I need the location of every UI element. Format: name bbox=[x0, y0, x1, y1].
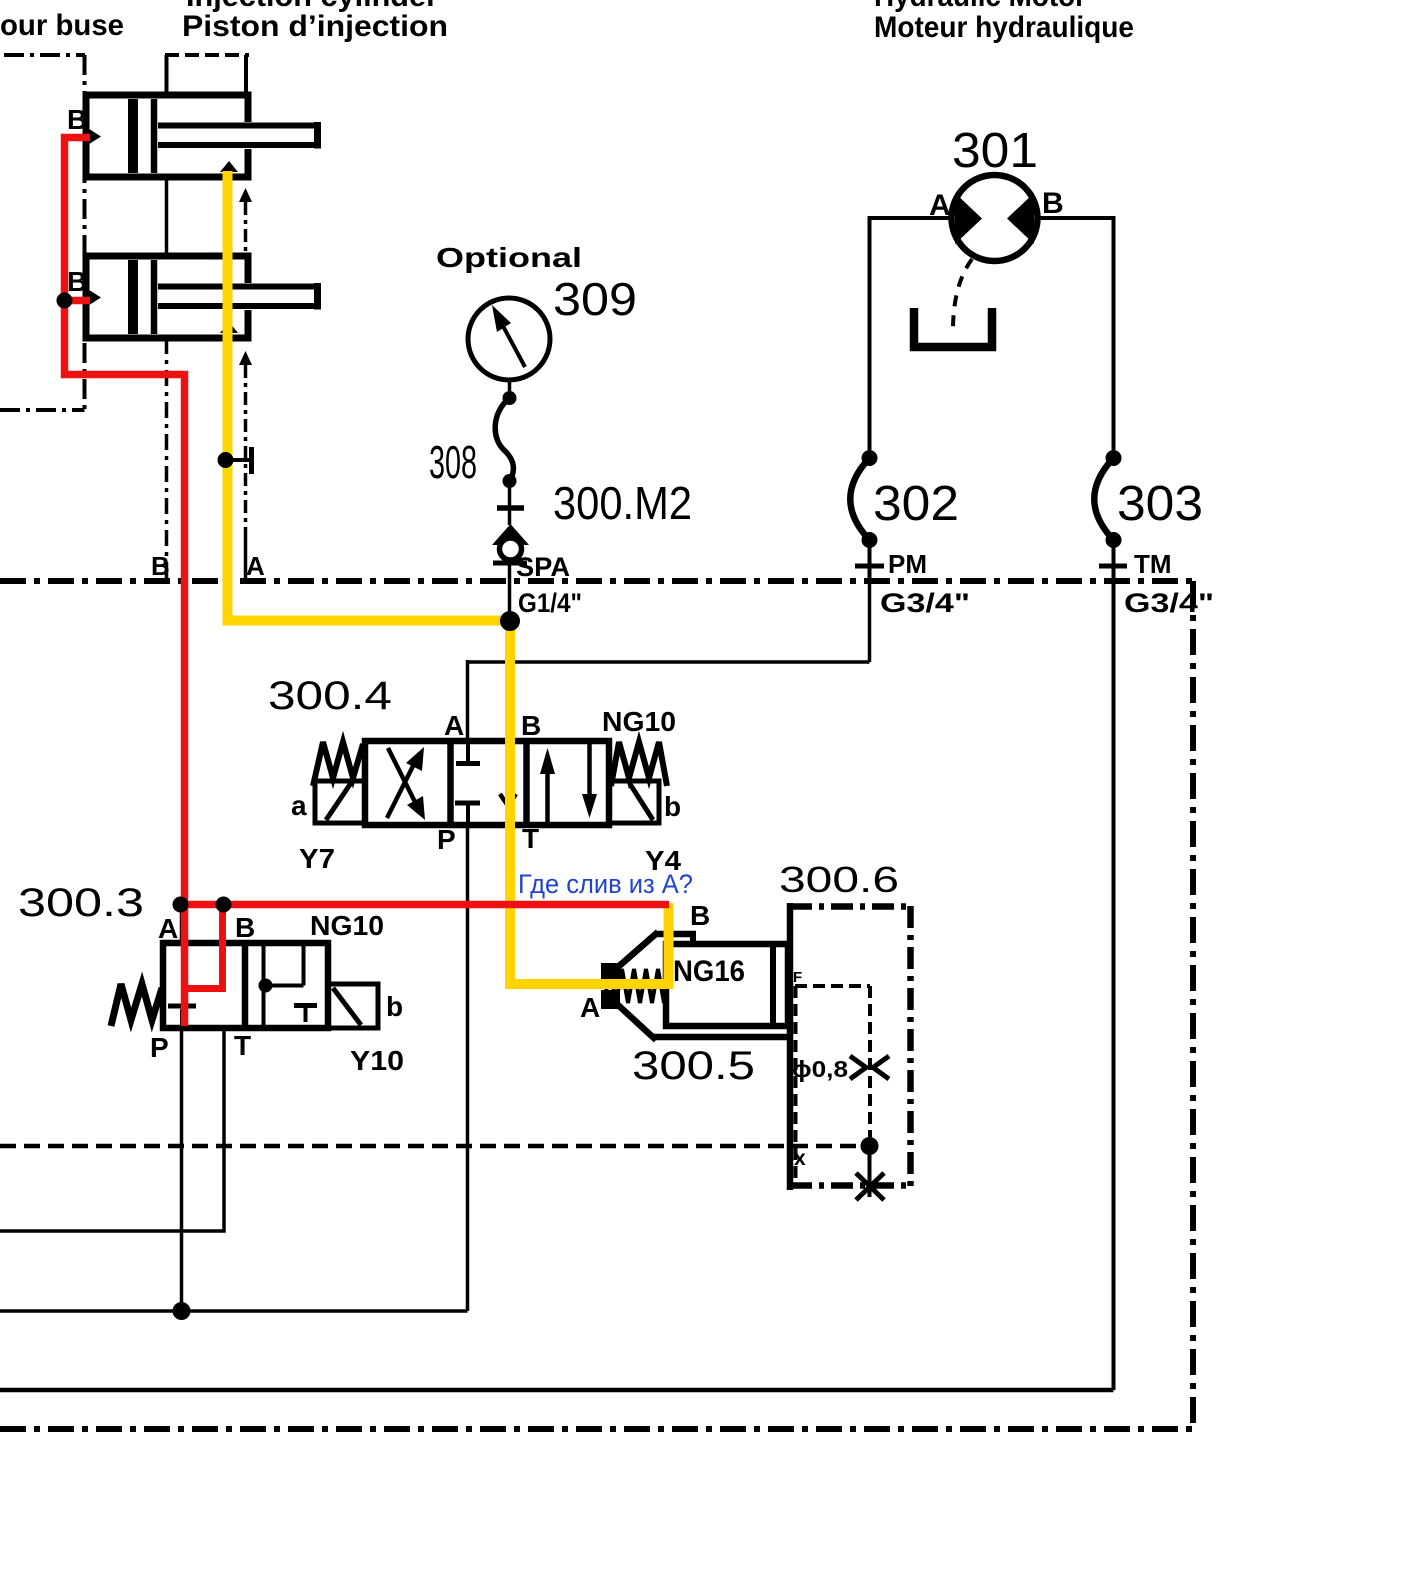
junction dot SPA bbox=[500, 611, 520, 631]
cylinder 1 rod bbox=[158, 122, 321, 149]
svg-text:302: 302 bbox=[873, 477, 959, 531]
svg-text:Moteur hydraulique: Moteur hydraulique bbox=[874, 11, 1134, 44]
300.4 left spring bbox=[313, 742, 363, 786]
300.3 left position P blocked symbol bbox=[168, 1004, 196, 1009]
300.5 funnel top diagonal bbox=[618, 932, 658, 967]
cylinder 1 piston bar 1 bbox=[128, 99, 138, 173]
drain line B below cylinder 2 bbox=[165, 338, 169, 578]
svg-text:F: F bbox=[793, 969, 802, 986]
svg-text:Y10: Y10 bbox=[350, 1045, 404, 1076]
300.4 center A blocked symbol bbox=[466, 744, 470, 761]
leak line A between cylinders bbox=[244, 202, 248, 256]
300.5 body NG16 bbox=[666, 944, 788, 1026]
300.4 right spring bbox=[611, 742, 667, 786]
svg-text:300.4: 300.4 bbox=[268, 674, 392, 718]
red highlight line (B side) bbox=[65, 138, 185, 1027]
svg-text:G3/4": G3/4" bbox=[1124, 588, 1214, 618]
red line to 300.5 bbox=[181, 901, 669, 909]
svg-text:303: 303 bbox=[1117, 477, 1203, 531]
300.5 seat lower block bbox=[601, 990, 620, 1009]
tank symbol bbox=[914, 308, 992, 347]
300.6 plug line bbox=[868, 1153, 872, 1197]
boundary dash-dot top edge bbox=[0, 578, 1193, 584]
svg-text:G1/4": G1/4" bbox=[518, 588, 582, 618]
300.6 left solid edge bbox=[787, 903, 794, 1190]
coupling 303 upper dot bbox=[1106, 450, 1122, 466]
PM line above boundary bbox=[868, 547, 872, 578]
svg-text:TM: TM bbox=[1134, 549, 1172, 579]
pump supply line bbox=[0, 1309, 468, 1313]
hose top junction dot bbox=[503, 391, 517, 405]
svg-text:NG10: NG10 bbox=[310, 910, 384, 941]
PM line below boundary bbox=[868, 584, 872, 662]
leak line A below cylinder 2 bbox=[244, 365, 248, 532]
300.4 center P blocked symbol bbox=[455, 801, 480, 806]
red U path inside valve 300.3 bbox=[185, 905, 223, 989]
valve 300.4 port B line bbox=[508, 621, 512, 744]
TM line below boundary to bottom bbox=[1112, 584, 1116, 1390]
cylinder 1 mount box right wall bbox=[244, 55, 248, 96]
boundary dash-dot right edge bbox=[1190, 581, 1196, 1429]
300.5 funnel bottom diagonal bbox=[618, 1005, 656, 1040]
valve 300.4 divider 1 bbox=[447, 741, 454, 825]
svg-text:our buse: our buse bbox=[0, 9, 124, 42]
cylinder 1 mount box left wall bbox=[165, 55, 169, 96]
300.4 right position up arrow bbox=[545, 770, 550, 822]
svg-text:SPA: SPA bbox=[516, 552, 570, 582]
svg-text:T: T bbox=[522, 823, 539, 854]
svg-text:Optional: Optional bbox=[436, 242, 582, 273]
flexible hose 308 bbox=[495, 398, 513, 481]
svg-text:308: 308 bbox=[429, 436, 477, 488]
300.5 funnel bottom line bbox=[653, 1034, 789, 1041]
valve 300.3 port B stub bbox=[221, 904, 225, 946]
shutoff tick 300.M2 bbox=[497, 505, 524, 511]
plugged branch stub bbox=[226, 458, 252, 462]
minimess arrow 300.M2 bbox=[492, 524, 529, 545]
junction dot 300.3 B bbox=[216, 897, 232, 913]
svg-text:A: A bbox=[580, 992, 600, 1023]
motor B side line bbox=[1036, 218, 1114, 450]
gauge stem line bbox=[508, 380, 512, 398]
gauge needle bbox=[503, 326, 525, 367]
svg-text:300.3: 300.3 bbox=[18, 881, 144, 925]
cylinder 1 body bbox=[86, 95, 248, 177]
300.5 seat upper block bbox=[601, 963, 620, 982]
motor wedge right bbox=[1007, 193, 1034, 244]
coupling 303 lower dot bbox=[1106, 532, 1122, 548]
svg-text:B: B bbox=[1042, 187, 1064, 220]
300.6 dash-dot top edge bbox=[790, 903, 910, 910]
cylinder 2 body bbox=[86, 256, 248, 338]
300.3 right position junction dot bbox=[259, 979, 273, 993]
300.6 orifice symbol bbox=[850, 1056, 866, 1079]
300.6 inner dashed box top bbox=[795, 984, 870, 988]
bottom return line bbox=[0, 1388, 1114, 1393]
boundary dash-dot bottom edge bbox=[0, 1426, 1193, 1432]
300.4 center B-T arrowhead bbox=[500, 794, 516, 806]
300.6 plugged port star bbox=[856, 1173, 884, 1200]
cylinder 2 rod bbox=[158, 283, 321, 310]
junction dot cylinder 2 B bbox=[57, 293, 73, 309]
svg-text:Y7: Y7 bbox=[299, 843, 335, 874]
valve 300.3 port T line bbox=[0, 1028, 224, 1231]
cylinder 1 bottom port notch bbox=[220, 161, 238, 172]
300.4 right position down arrow bbox=[587, 744, 592, 796]
pressure gauge 309 body bbox=[468, 298, 550, 380]
yellow highlight line (A side) bbox=[228, 171, 669, 984]
svg-text:a: a bbox=[291, 790, 307, 821]
svg-text:NG16: NG16 bbox=[673, 955, 745, 988]
red branch to cylinder 2 port B bbox=[65, 297, 91, 305]
300.3 solenoid Y10 box bbox=[328, 984, 378, 1028]
hydraulic motor 301 circle bbox=[952, 175, 1038, 261]
drain line B between cylinders bbox=[165, 177, 169, 256]
300.4 left position cross arrow 2 bbox=[388, 748, 415, 802]
svg-text:ϕ0,8: ϕ0,8 bbox=[792, 1056, 848, 1082]
300.5 funnel top line bbox=[655, 931, 696, 938]
svg-text:300.5: 300.5 bbox=[632, 1044, 755, 1088]
svg-text:Где слив из А?: Где слив из А? bbox=[518, 869, 693, 899]
cylinder 2 piston bar 2 bbox=[151, 260, 158, 334]
svg-text:B: B bbox=[151, 551, 170, 581]
leak line arrow up (between cylinders) bbox=[239, 188, 252, 202]
valve 300.4 port T line bbox=[508, 822, 512, 984]
pilot drain dashed line bbox=[0, 1144, 869, 1149]
valve 300.3 port P line bbox=[180, 1028, 184, 1311]
line hose to shutoff bbox=[508, 481, 512, 525]
cylinder 1 port B arrow bbox=[86, 127, 101, 146]
300.3 spring bbox=[111, 984, 162, 1026]
motor A side line bbox=[870, 218, 954, 450]
valve 300.4 port A line bbox=[468, 660, 870, 744]
cylinder 2 piston bar 1 bbox=[128, 260, 138, 334]
300.6 dash-dot right edge bbox=[907, 906, 914, 1186]
plugged branch dot bbox=[218, 452, 234, 468]
svg-text:300.M2: 300.M2 bbox=[553, 477, 692, 529]
port TM tick bbox=[1099, 564, 1127, 569]
svg-text:A: A bbox=[246, 551, 265, 581]
svg-text:A: A bbox=[158, 913, 178, 944]
TM line above boundary bbox=[1112, 547, 1116, 578]
svg-text:b: b bbox=[664, 791, 681, 822]
valve 300.3 body bbox=[163, 943, 328, 1028]
cylinder 2 bottom port notch bbox=[220, 322, 238, 333]
svg-text:B: B bbox=[521, 710, 541, 741]
300.6 inner dashed box left bbox=[794, 986, 798, 1184]
coupling 302 upper dot bbox=[862, 450, 878, 466]
pump supply junction dot bbox=[173, 1302, 191, 1320]
300.3 right position path bbox=[266, 984, 304, 988]
motor wedge left bbox=[955, 193, 982, 244]
enclosure dash-dot left edge bbox=[83, 55, 87, 410]
valve 300.3 divider bbox=[242, 943, 249, 1028]
cylinder 1 mount box dashed top bbox=[165, 53, 249, 57]
enclosure dash-dot top-left bbox=[4, 53, 85, 57]
svg-text:b: b bbox=[386, 991, 403, 1022]
svg-text:B: B bbox=[690, 900, 710, 931]
svg-text:T: T bbox=[234, 1030, 251, 1061]
svg-text:B: B bbox=[67, 266, 87, 297]
valve 300.4 port P line bbox=[466, 822, 470, 1311]
svg-text:300.6: 300.6 bbox=[779, 859, 899, 900]
coupling 302 lower dot bbox=[862, 532, 878, 548]
svg-text:A: A bbox=[929, 189, 951, 222]
300.6 junction dot bbox=[861, 1137, 879, 1155]
valve 300.3 port A stub bbox=[180, 904, 184, 946]
svg-text:301: 301 bbox=[952, 124, 1038, 178]
svg-text:G3/4": G3/4" bbox=[880, 588, 970, 618]
300.5 spring bbox=[604, 969, 664, 1003]
valve 300.4 body bbox=[365, 741, 609, 825]
svg-text:Piston d’injection: Piston d’injection bbox=[182, 10, 448, 43]
junction dot 300.3 A bbox=[173, 897, 189, 913]
enclosure dash-dot lower edge bbox=[0, 408, 85, 412]
300.4 right solenoid Y4 box bbox=[609, 781, 659, 823]
leak line arrow up (below cylinder 2) bbox=[239, 351, 252, 365]
300.4 left solenoid Y7 box bbox=[315, 781, 365, 823]
300.3 right position T blocked symbol bbox=[294, 1003, 317, 1008]
case drain dashed bbox=[953, 259, 972, 330]
svg-text:A: A bbox=[444, 710, 464, 741]
valve 300.3 inner line bbox=[262, 943, 266, 1028]
coupling 302 arc bbox=[850, 458, 869, 540]
minimess coupling circle bbox=[500, 538, 522, 560]
300.6 inner dashed pilot line bbox=[868, 986, 872, 1137]
svg-text:P: P bbox=[437, 824, 456, 855]
coupling 303 arc bbox=[1094, 458, 1113, 540]
svg-text:B: B bbox=[67, 104, 87, 135]
cylinder 1 piston bar 2 bbox=[151, 99, 158, 173]
hose bottom junction dot bbox=[503, 474, 517, 488]
svg-text:PM: PM bbox=[888, 549, 927, 579]
300.4 left position cross arrow 1 bbox=[387, 764, 414, 818]
port SPA tick bbox=[493, 561, 527, 566]
svg-text:309: 309 bbox=[553, 273, 637, 325]
SPA line to boundary bbox=[508, 558, 512, 621]
svg-text:P: P bbox=[150, 1032, 169, 1063]
300.6 dash-dot bottom edge bbox=[790, 1182, 910, 1189]
valve 300.4 divider 2 bbox=[523, 741, 530, 825]
svg-text:NG10: NG10 bbox=[602, 706, 676, 737]
plugged branch bar bbox=[249, 447, 254, 474]
port PM tick bbox=[855, 564, 884, 569]
300.5 internal piston line bbox=[770, 944, 776, 1026]
cylinder 2 port B arrow bbox=[86, 288, 101, 307]
svg-text:x: x bbox=[794, 1147, 806, 1170]
svg-text:B: B bbox=[235, 912, 255, 943]
